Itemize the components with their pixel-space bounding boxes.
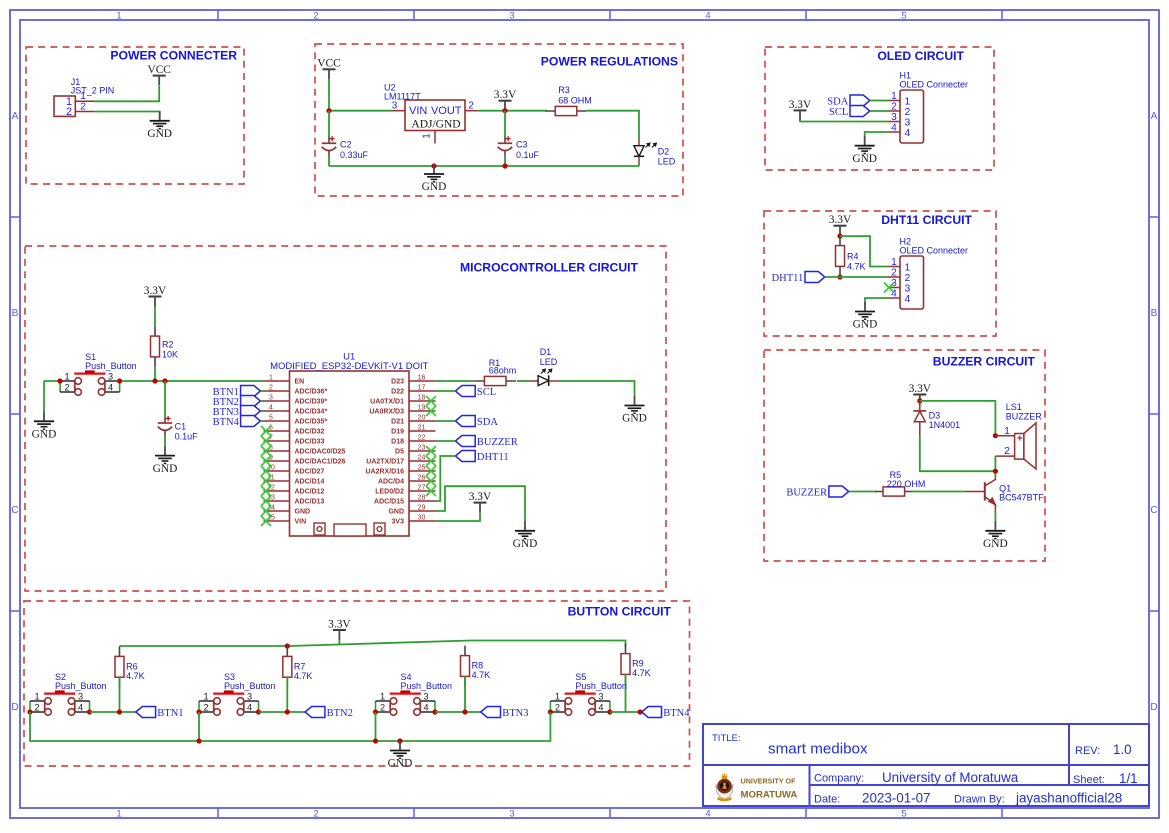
- svg-text:LED: LED: [658, 156, 676, 166]
- svg-text:ADC/D39*: ADC/D39*: [295, 399, 328, 406]
- svg-text:4: 4: [269, 405, 273, 412]
- svg-text:2: 2: [313, 809, 318, 820]
- svg-text:3.3V: 3.3V: [144, 285, 167, 297]
- svg-text:3.3V: 3.3V: [909, 383, 932, 395]
- svg-text:4: 4: [705, 809, 710, 820]
- svg-text:GND: GND: [388, 509, 404, 516]
- svg-text:ADC/D36*: ADC/D36*: [295, 389, 328, 396]
- svg-text:D3: D3: [929, 410, 941, 420]
- svg-text:ADC/D13: ADC/D13: [295, 499, 325, 506]
- svg-text:Push_Button: Push_Button: [401, 681, 453, 691]
- svg-text:1: 1: [116, 809, 121, 820]
- svg-text:ADC/DAC1/D26: ADC/DAC1/D26: [295, 459, 346, 466]
- svg-text:OLED Connecter: OLED Connecter: [900, 80, 969, 90]
- svg-text:220 OHM: 220 OHM: [887, 479, 926, 489]
- svg-text:3.3V: 3.3V: [494, 89, 517, 101]
- svg-text:DHT11: DHT11: [477, 452, 509, 463]
- svg-text:3: 3: [78, 691, 83, 701]
- svg-text:BTN1: BTN1: [157, 708, 183, 719]
- svg-text:D18: D18: [391, 439, 404, 446]
- svg-text:4: 4: [905, 128, 911, 139]
- svg-text:BUTTON CIRCUIT: BUTTON CIRCUIT: [568, 604, 672, 618]
- svg-text:GND: GND: [32, 429, 57, 441]
- svg-text:28: 28: [418, 495, 426, 502]
- svg-text:1: 1: [555, 691, 560, 701]
- svg-text:D: D: [11, 702, 18, 713]
- svg-text:4: 4: [247, 702, 252, 712]
- svg-text:25: 25: [418, 465, 426, 472]
- svg-text:1: 1: [891, 91, 897, 102]
- svg-text:VIN: VIN: [295, 519, 307, 526]
- svg-text:18: 18: [418, 395, 426, 402]
- svg-text:LED0/D2: LED0/D2: [375, 489, 404, 496]
- svg-text:A: A: [12, 111, 19, 122]
- svg-text:22: 22: [418, 435, 426, 442]
- svg-text:D2: D2: [658, 147, 670, 157]
- svg-text:R7: R7: [294, 661, 306, 671]
- svg-text:ADC/D32: ADC/D32: [295, 429, 325, 436]
- svg-text:D: D: [1150, 702, 1157, 713]
- svg-text:3.3V: 3.3V: [829, 214, 852, 226]
- svg-text:B: B: [12, 308, 19, 319]
- svg-text:SCL: SCL: [829, 107, 848, 118]
- svg-text:26: 26: [418, 475, 426, 482]
- svg-text:VCC: VCC: [147, 64, 170, 76]
- svg-text:1: 1: [65, 371, 70, 381]
- svg-text:ADC/D27: ADC/D27: [295, 469, 325, 476]
- svg-text:2: 2: [555, 702, 560, 712]
- svg-text:GND: GND: [513, 538, 538, 550]
- svg-text:D21: D21: [391, 419, 404, 426]
- svg-text:17: 17: [418, 385, 426, 392]
- svg-text:ADC/D35*: ADC/D35*: [295, 419, 328, 426]
- svg-text:Sheet:: Sheet:: [1073, 774, 1105, 786]
- svg-text:68ohm: 68ohm: [489, 365, 517, 375]
- svg-text:GND: GND: [147, 128, 172, 140]
- svg-text:23: 23: [418, 445, 426, 452]
- svg-text:4: 4: [905, 294, 911, 305]
- svg-text:1: 1: [422, 133, 433, 139]
- svg-text:3: 3: [509, 11, 514, 22]
- svg-text:5: 5: [901, 809, 906, 820]
- svg-text:0.1uF: 0.1uF: [175, 431, 199, 441]
- svg-text:Push_Button: Push_Button: [85, 361, 137, 371]
- svg-text:SDA: SDA: [477, 417, 498, 428]
- svg-text:2: 2: [905, 107, 911, 118]
- svg-text:A: A: [1151, 111, 1158, 122]
- svg-text:BTN2: BTN2: [327, 708, 353, 719]
- svg-text:TITLE:: TITLE:: [712, 733, 741, 744]
- svg-text:27: 27: [418, 485, 426, 492]
- svg-text:1.0: 1.0: [1113, 742, 1132, 757]
- svg-text:JST_2 PIN: JST_2 PIN: [71, 86, 115, 96]
- svg-text:D19: D19: [391, 429, 404, 436]
- svg-text:POWER CONNECTER: POWER CONNECTER: [110, 48, 237, 62]
- svg-text:BUZZER: BUZZER: [1006, 411, 1043, 421]
- svg-text:ADC/D34*: ADC/D34*: [295, 409, 328, 416]
- svg-text:2: 2: [1004, 445, 1010, 457]
- svg-text:1: 1: [891, 257, 897, 268]
- svg-text:BTN4: BTN4: [663, 708, 690, 719]
- svg-text:4: 4: [705, 11, 710, 22]
- svg-text:POWER REGULATIONS: POWER REGULATIONS: [541, 54, 678, 68]
- svg-text:3: 3: [905, 283, 911, 294]
- svg-text:Drawn By:: Drawn By:: [954, 793, 1005, 805]
- svg-text:UA2RX/D16: UA2RX/D16: [365, 469, 404, 476]
- svg-text:ADC/D12: ADC/D12: [295, 489, 325, 496]
- svg-text:1: 1: [34, 691, 39, 701]
- svg-text:GND: GND: [422, 181, 447, 193]
- svg-text:3: 3: [247, 691, 252, 701]
- svg-text:4.7K: 4.7K: [294, 671, 313, 681]
- svg-text:30: 30: [418, 515, 426, 522]
- svg-text:1: 1: [380, 691, 385, 701]
- svg-text:2: 2: [905, 273, 911, 284]
- svg-text:VOUT: VOUT: [431, 105, 462, 117]
- svg-text:2: 2: [65, 382, 70, 392]
- svg-text:LED: LED: [540, 357, 558, 367]
- svg-text:BC547BTF: BC547BTF: [999, 493, 1044, 503]
- svg-text:OLED CIRCUIT: OLED CIRCUIT: [877, 49, 964, 63]
- svg-text:D22: D22: [391, 389, 404, 396]
- svg-text:R6: R6: [126, 661, 138, 671]
- svg-text:4: 4: [78, 702, 83, 712]
- svg-text:ADC/DAC0/D25: ADC/DAC0/D25: [295, 449, 346, 456]
- svg-text:GND: GND: [388, 758, 413, 770]
- svg-text:MORATUWA: MORATUWA: [741, 790, 798, 801]
- svg-text:EN: EN: [295, 379, 305, 386]
- svg-text:3.3V: 3.3V: [328, 618, 351, 630]
- svg-text:4.7K: 4.7K: [847, 261, 866, 271]
- svg-text:D23: D23: [391, 379, 404, 386]
- svg-text:3: 3: [509, 809, 514, 820]
- svg-text:GND: GND: [295, 509, 311, 516]
- svg-text:2: 2: [313, 11, 318, 22]
- svg-text:GND: GND: [983, 538, 1008, 550]
- svg-text:10K: 10K: [162, 349, 178, 359]
- svg-text:0.1uF: 0.1uF: [516, 150, 540, 160]
- svg-text:BTN3: BTN3: [502, 708, 528, 719]
- svg-text:C: C: [1150, 505, 1157, 516]
- svg-text:ADJ/GND: ADJ/GND: [411, 119, 460, 131]
- svg-text:SCL: SCL: [477, 387, 496, 398]
- svg-text:R3: R3: [558, 85, 570, 95]
- svg-text:D1: D1: [540, 347, 552, 357]
- svg-text:3: 3: [905, 117, 911, 128]
- svg-text:UA0RX/D3: UA0RX/D3: [369, 409, 404, 416]
- svg-text:GND: GND: [852, 153, 877, 165]
- svg-text:OLED Connecter: OLED Connecter: [900, 246, 969, 256]
- svg-text:B: B: [1151, 308, 1158, 319]
- svg-text:1: 1: [1004, 425, 1010, 437]
- svg-text:C1: C1: [175, 422, 187, 432]
- svg-text:3: 3: [108, 371, 113, 381]
- svg-text:1N4001: 1N4001: [929, 420, 961, 430]
- svg-text:R4: R4: [847, 251, 859, 261]
- svg-text:3: 3: [392, 101, 398, 112]
- svg-text:Push_Button: Push_Button: [224, 681, 276, 691]
- svg-text:Push_Button: Push_Button: [575, 681, 627, 691]
- svg-text:4: 4: [108, 382, 113, 392]
- svg-text:5: 5: [269, 415, 273, 422]
- svg-text:0.33uF: 0.33uF: [340, 150, 369, 160]
- svg-text:2: 2: [34, 702, 39, 712]
- svg-text:1: 1: [116, 11, 121, 22]
- svg-text:DHT11 CIRCUIT: DHT11 CIRCUIT: [881, 213, 972, 227]
- svg-text:SDA: SDA: [827, 96, 848, 107]
- svg-text:19: 19: [418, 405, 426, 412]
- svg-text:BTN4: BTN4: [213, 417, 240, 428]
- svg-text:Company:: Company:: [814, 773, 864, 785]
- svg-text:2: 2: [891, 102, 897, 113]
- svg-text:jayashanofficial28: jayashanofficial28: [1015, 791, 1122, 806]
- svg-text:R9: R9: [632, 659, 644, 669]
- svg-text:2: 2: [203, 702, 208, 712]
- svg-text:3: 3: [423, 691, 428, 701]
- svg-text:29: 29: [418, 505, 426, 512]
- svg-text:2: 2: [891, 268, 897, 279]
- svg-text:University of Moratuwa: University of Moratuwa: [882, 770, 1019, 785]
- svg-text:68 OHM: 68 OHM: [558, 95, 592, 105]
- svg-text:1: 1: [905, 262, 911, 273]
- svg-text:3: 3: [891, 112, 897, 123]
- svg-text:UA0TX/D1: UA0TX/D1: [370, 399, 404, 406]
- svg-text:C2: C2: [340, 140, 352, 150]
- svg-text:UA2TX/D17: UA2TX/D17: [366, 459, 404, 466]
- svg-text:3: 3: [269, 395, 273, 402]
- svg-text:5: 5: [901, 11, 906, 22]
- svg-text:4.7K: 4.7K: [632, 668, 651, 678]
- svg-text:4.7K: 4.7K: [472, 670, 491, 680]
- svg-text:4: 4: [423, 702, 428, 712]
- svg-text:2: 2: [380, 702, 385, 712]
- svg-text:C: C: [11, 505, 18, 516]
- svg-text:GND: GND: [622, 413, 647, 425]
- svg-text:ADC/D4: ADC/D4: [378, 479, 404, 486]
- svg-text:MODIFIED_ESP32-DEVKIT-V1 DOIT: MODIFIED_ESP32-DEVKIT-V1 DOIT: [270, 361, 429, 372]
- svg-text:16: 16: [418, 375, 426, 382]
- svg-text:Push_Button: Push_Button: [55, 681, 107, 691]
- svg-text:1/1: 1/1: [1119, 771, 1138, 786]
- svg-text:R2: R2: [162, 340, 174, 350]
- svg-text:2: 2: [66, 106, 72, 118]
- svg-text:2: 2: [269, 385, 273, 392]
- svg-text:3.3V: 3.3V: [789, 99, 812, 111]
- svg-text:VCC: VCC: [317, 58, 340, 70]
- svg-text:Date:: Date:: [814, 793, 840, 805]
- svg-text:LM1117T: LM1117T: [384, 91, 421, 101]
- svg-text:MICROCONTROLLER CIRCUIT: MICROCONTROLLER CIRCUIT: [460, 260, 639, 274]
- svg-text:3: 3: [598, 691, 603, 701]
- svg-text:smart medibox: smart medibox: [768, 741, 868, 758]
- svg-text:4.7K: 4.7K: [126, 671, 145, 681]
- svg-text:GND: GND: [853, 319, 878, 331]
- svg-text:2: 2: [80, 100, 86, 112]
- svg-text:1: 1: [905, 96, 911, 107]
- svg-text:3V3: 3V3: [392, 519, 405, 526]
- svg-text:21: 21: [418, 425, 426, 432]
- svg-text:R8: R8: [472, 661, 484, 671]
- svg-text:ADC/D33: ADC/D33: [295, 439, 325, 446]
- svg-text:UNIVERSITY OF: UNIVERSITY OF: [741, 777, 797, 786]
- svg-text:20: 20: [418, 415, 426, 422]
- svg-text:2023-01-07: 2023-01-07: [862, 791, 931, 806]
- svg-text:BUZZER CIRCUIT: BUZZER CIRCUIT: [933, 354, 1036, 368]
- svg-text:BUZZER: BUZZER: [786, 487, 827, 498]
- svg-text:1: 1: [203, 691, 208, 701]
- svg-text:1: 1: [269, 375, 273, 382]
- svg-text:C3: C3: [516, 140, 528, 150]
- svg-text:D5: D5: [395, 449, 404, 456]
- svg-text:3.3V: 3.3V: [469, 491, 492, 503]
- svg-text:ADC/D14: ADC/D14: [295, 479, 325, 486]
- svg-text:GND: GND: [153, 463, 178, 475]
- svg-text:24: 24: [418, 455, 426, 462]
- svg-text:4: 4: [891, 123, 897, 134]
- svg-text:VIN: VIN: [409, 105, 427, 117]
- svg-text:4: 4: [598, 702, 603, 712]
- svg-text:DHT11: DHT11: [772, 273, 804, 284]
- svg-text:2: 2: [468, 101, 474, 112]
- svg-text:REV:: REV:: [1075, 745, 1100, 757]
- svg-text:BUZZER: BUZZER: [477, 437, 518, 448]
- svg-text:ADC/D15: ADC/D15: [374, 499, 404, 506]
